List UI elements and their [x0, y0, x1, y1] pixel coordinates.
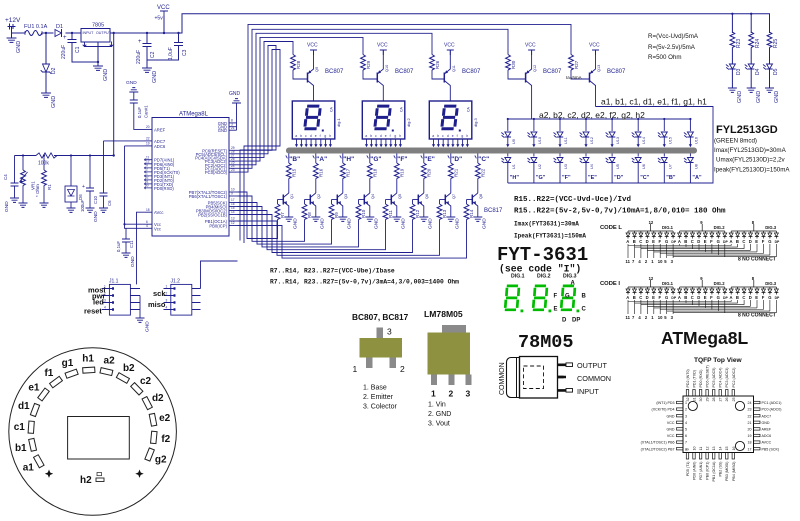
svg-text:CODE I: CODE I — [600, 281, 620, 287]
svg-text:+12V: +12V — [5, 17, 21, 24]
svg-text:GND: GND — [737, 91, 743, 103]
svg-text:VCC: VCC — [667, 434, 675, 438]
svg-text:sck: sck — [153, 289, 166, 298]
svg-text:B: B — [736, 295, 739, 300]
svg-text:ADC7: ADC7 — [762, 414, 772, 418]
pin 9 bottom — [686, 449, 690, 477]
svg-text:Q3: Q3 — [344, 194, 348, 199]
svg-text:f: f — [320, 134, 321, 138]
svg-text:1: 1 — [353, 364, 358, 374]
svg-text:PD2 (INT0): PD2 (INT0) — [686, 369, 690, 387]
svg-text:"C": "C" — [478, 156, 489, 163]
resistor R24 column — [749, 13, 761, 64]
capacitor C6 — [93, 141, 112, 222]
svg-text:F: F — [762, 295, 765, 300]
pin 16 bottom — [732, 447, 736, 481]
svg-text:PB4 (MISO): PB4 (MISO) — [732, 462, 736, 481]
wire segment bus (thick gray) — [286, 148, 697, 154]
svg-text:3: 3 — [466, 389, 471, 399]
svg-text:h: h — [329, 134, 331, 138]
svg-text:VCC: VCC — [307, 43, 318, 49]
svg-text:"E": "E" — [424, 156, 435, 163]
svg-text:DP: DP — [671, 296, 676, 300]
resistor R9 — [329, 200, 339, 233]
svg-text:TQFP Top View: TQFP Top View — [694, 357, 742, 364]
svg-text:Q1: Q1 — [290, 194, 294, 199]
svg-text:R9: R9 — [334, 212, 339, 218]
svg-text:C3: C3 — [182, 49, 188, 56]
pin AREF — [145, 125, 166, 132]
svg-text:PD0(RXD): PD0(RXD) — [154, 186, 174, 191]
note base resistor formulas — [270, 268, 459, 286]
pin PB1(OC1A) — [205, 217, 238, 224]
svg-text:dig.1: dig.1 — [336, 118, 341, 127]
svg-text:22: 22 — [146, 137, 150, 141]
svg-text:R=(Vcc-Uvd)/5mA: R=(Vcc-Uvd)/5mA — [648, 33, 699, 40]
svg-text:BC817: BC817 — [484, 208, 503, 214]
node pad c1 — [14, 421, 35, 433]
resistor R21 — [448, 154, 458, 194]
svg-text:1. Vin: 1. Vin — [428, 402, 446, 409]
7seg display DIG3 — [429, 101, 478, 139]
svg-text:U8: U8 — [694, 164, 698, 169]
resistor R18 — [367, 154, 377, 194]
svg-text:3: 3 — [387, 327, 392, 337]
ground — [365, 217, 379, 229]
resistor R3 100k — [36, 153, 57, 167]
svg-text:G: G — [768, 239, 771, 244]
svg-text:GND: GND — [229, 91, 241, 97]
svg-text:(GREEN 8mcd): (GREEN 8mcd) — [714, 138, 757, 145]
svg-text:U11: U11 — [564, 137, 568, 144]
LED D3 — [726, 64, 742, 88]
regulator 78M05 DPAK drawing — [507, 357, 573, 399]
svg-text:Q8: Q8 — [479, 194, 483, 199]
pin ADC6 — [145, 142, 166, 149]
pin GND — [218, 126, 237, 133]
svg-text:DIG.2: DIG.2 — [537, 274, 551, 280]
svg-text:E: E — [755, 295, 758, 300]
svg-text:C: C — [742, 295, 745, 300]
svg-text:CA: CA — [399, 106, 403, 112]
svg-text:B: B — [582, 294, 587, 300]
LED U1 — [501, 154, 516, 184]
svg-text:R7..R14, R23..R27=(VCC-Ube)/Ib: R7..R14, R23..R27=(VCC-Ube)/Ibase — [270, 268, 395, 275]
svg-text:AVCC: AVCC — [762, 441, 772, 445]
svg-text:GND: GND — [93, 211, 99, 222]
ground — [728, 88, 743, 103]
svg-text:C: C — [582, 307, 587, 313]
pin 12 bottom — [706, 447, 710, 480]
svg-text:100uF: 100uF — [80, 199, 85, 212]
transistor Q3 BC817 — [332, 193, 348, 217]
svg-text:J1.1: J1.1 — [109, 279, 119, 285]
svg-text:R24: R24 — [755, 39, 761, 48]
svg-text:e: e — [385, 134, 387, 138]
SEC-POWER — [5, 5, 770, 156]
svg-text:D: D — [749, 239, 752, 244]
diode array CODE L — [626, 231, 778, 239]
svg-text:PB6(XTAL1/TOSC1): PB6(XTAL1/TOSC1) — [189, 194, 228, 199]
svg-text:PC5 (ADC5): PC5 (ADC5) — [712, 368, 716, 388]
pin 32 top — [686, 369, 690, 401]
svg-text:31: 31 — [692, 398, 696, 402]
svg-text:h1: h1 — [82, 354, 94, 365]
pin 4 left — [667, 421, 687, 425]
LED U7 — [658, 154, 673, 184]
note FYT-3631 title — [497, 244, 588, 275]
svg-text:BC807: BC807 — [395, 69, 414, 75]
LED U3 — [554, 154, 569, 184]
op-amp U100 ATMega8L MCU body — [152, 112, 229, 237]
resistor R26 — [430, 55, 445, 80]
note LM78M05 pinout — [428, 402, 451, 428]
diode D6 box — [65, 154, 83, 212]
svg-text:reset: reset — [84, 307, 102, 316]
pin Vcc — [145, 224, 161, 231]
pin PD0(RXD) — [145, 184, 175, 191]
svg-text:d: d — [380, 134, 382, 138]
resistor R28 — [291, 55, 308, 80]
transistor Q12 BC807 — [526, 50, 562, 119]
pin PD3(INT1) — [145, 172, 175, 179]
SEC-BUNDLE — [237, 24, 572, 258]
pin 10 bottom — [692, 447, 696, 480]
node junction — [45, 32, 47, 34]
pin ADC7 — [145, 137, 166, 144]
svg-text:Q11: Q11 — [452, 65, 456, 72]
svg-text:Imax(FYL2513GD)=30mA: Imax(FYL2513GD)=30mA — [714, 147, 787, 154]
svg-text:A: A — [571, 281, 576, 287]
svg-text:e2: e2 — [159, 413, 171, 424]
node VCC — [155, 5, 171, 34]
svg-text:D2: D2 — [51, 67, 57, 74]
capacitor C3 — [147, 32, 188, 68]
svg-text:Imax(FYT3631)=30mA: Imax(FYT3631)=30mA — [514, 221, 579, 228]
svg-text:GND: GND — [51, 96, 57, 108]
node pad a2 — [100, 355, 115, 375]
note FYL2513GD — [714, 124, 790, 174]
svg-text:INPUT: INPUT — [83, 31, 95, 35]
wire PC2 to Q11 base — [237, 33, 433, 165]
svg-text:8 NO CONNECT: 8 NO CONNECT — [738, 313, 776, 319]
svg-text:4: 4 — [685, 421, 687, 425]
wire code mesh — [628, 300, 776, 314]
svg-text:GND: GND — [218, 128, 227, 133]
svg-text:BC807: BC807 — [543, 69, 562, 75]
svg-text:b: b — [300, 134, 302, 138]
node pad f1 — [44, 368, 62, 388]
svg-text:VCC: VCC — [157, 5, 170, 11]
pin 26 top — [725, 368, 729, 402]
ground — [7, 33, 22, 53]
svg-text:B: B — [633, 239, 636, 244]
node pad h1 — [82, 354, 95, 374]
svg-text:R18: R18 — [372, 168, 377, 177]
svg-text:10: 10 — [658, 259, 663, 264]
svg-text:"B": "B" — [289, 156, 300, 163]
note LED resistor formula — [648, 33, 699, 61]
display DIG1 pins to bus — [295, 139, 332, 147]
SEC-PACKAGES — [352, 309, 472, 428]
svg-text:BC807: BC807 — [607, 69, 626, 75]
SEC-TOPRIGHT — [648, 13, 790, 174]
svg-text:Ipeak(FYT3631)=150mA: Ipeak(FYT3631)=150mA — [514, 233, 586, 240]
pin 23 right — [748, 408, 782, 412]
svg-text:"H": "H" — [510, 175, 520, 181]
wire PC0 to Q13 base — [237, 24, 572, 172]
svg-text:G: G — [768, 295, 771, 300]
svg-text:e: e — [315, 134, 317, 138]
svg-text:19: 19 — [748, 434, 752, 438]
svg-text:E: E — [554, 307, 558, 313]
resistor R14 — [464, 200, 474, 233]
svg-text:a: a — [432, 134, 434, 138]
svg-text:f: f — [457, 134, 458, 138]
resistor R22 — [475, 154, 485, 194]
svg-text:DIG.2: DIG.2 — [714, 281, 726, 286]
node pad g2 — [145, 448, 167, 465]
LED U9 — [501, 118, 516, 147]
svg-text:INPUT: INPUT — [577, 387, 599, 396]
svg-text:FU1 0.1A: FU1 0.1A — [24, 24, 48, 30]
svg-text:Ipeak(FYL25130D)=150mA: Ipeak(FYL25130D)=150mA — [714, 167, 790, 174]
svg-text:+: + — [138, 39, 142, 45]
svg-text:led: led — [93, 298, 104, 307]
svg-text:1. Base: 1. Base — [363, 385, 387, 392]
svg-text:DIG.3: DIG.3 — [765, 225, 777, 230]
svg-text:VCC: VCC — [444, 43, 455, 49]
LED U13 — [606, 118, 621, 147]
svg-text:C: C — [639, 239, 642, 244]
svg-text:E: E — [652, 295, 655, 300]
svg-text:R1: R1 — [47, 184, 52, 190]
svg-text:g: g — [394, 134, 396, 138]
svg-text:D: D — [646, 295, 649, 300]
svg-text:R17: R17 — [345, 168, 350, 177]
wire ADC7 — [104, 140, 145, 142]
wire PB2 staircase to column E — [238, 215, 413, 253]
LED U8 — [684, 154, 699, 184]
svg-text:PB2(SS/OC1B): PB2(SS/OC1B) — [198, 213, 227, 218]
svg-text:9: 9 — [231, 192, 233, 196]
svg-text:R26: R26 — [435, 60, 440, 69]
power VCC — [589, 43, 600, 56]
clock face window — [68, 417, 130, 460]
SEC-IC — [145, 91, 242, 236]
svg-text:14: 14 — [719, 447, 723, 451]
svg-text:GND: GND — [103, 69, 109, 81]
svg-text:B: B — [684, 295, 687, 300]
svg-text:C10: C10 — [93, 196, 98, 204]
svg-text:13: 13 — [231, 217, 235, 221]
svg-text:GND: GND — [427, 218, 433, 229]
svg-text:R11: R11 — [388, 210, 393, 218]
transistor Q7 BC817 — [440, 193, 456, 217]
op-amp U100 TQFP package — [683, 396, 754, 453]
svg-text:R15..R22=(VCC-Uvd-Uce)/Ivd: R15..R22=(VCC-Uvd-Uce)/Ivd — [514, 196, 631, 204]
svg-text:3. Colector: 3. Colector — [363, 404, 398, 411]
svg-text:30: 30 — [145, 184, 149, 188]
node segment F — [394, 156, 408, 164]
svg-text:R15: R15 — [291, 168, 296, 177]
svg-text:D: D — [562, 318, 567, 324]
svg-text:E: E — [652, 239, 655, 244]
svg-text:23: 23 — [748, 408, 752, 412]
svg-text:c2: c2 — [140, 376, 152, 387]
pin PD7(AIN1) — [145, 155, 175, 162]
svg-text:a2, b2, c2, d2, e2, f2, g2, h2: a2, b2, c2, d2, e2, f2, g2, h2 — [539, 110, 645, 120]
svg-text:+5v: +5v — [155, 16, 164, 22]
svg-text:7805: 7805 — [92, 23, 104, 29]
svg-text:Umax(FYL25130D)=2,2v: Umax(FYL25130D)=2,2v — [716, 157, 786, 164]
svg-text:Q5: Q5 — [398, 194, 402, 199]
wire PC4 to Q9 base — [237, 42, 294, 158]
svg-text:d: d — [447, 134, 449, 138]
LED U14 — [632, 118, 647, 147]
wire J1.1 pins — [130, 289, 140, 319]
svg-text:PD6 (AIN0): PD6 (AIN0) — [692, 462, 696, 480]
capacitor Can1 AREF — [126, 80, 149, 129]
svg-text:C: C — [742, 239, 745, 244]
wire PB7 staircase to column B — [238, 192, 278, 239]
ground — [765, 88, 780, 103]
ground — [446, 217, 460, 229]
svg-text:19: 19 — [146, 142, 150, 146]
svg-text:U5: U5 — [616, 164, 620, 169]
pin 21 right — [748, 421, 770, 425]
wire code top bracket — [628, 224, 776, 231]
wire PC1 to Q12 base — [237, 29, 509, 168]
svg-text:R20: R20 — [426, 168, 431, 177]
svg-text:miso: miso — [148, 300, 166, 309]
node pad c2 — [131, 376, 152, 395]
svg-text:AREF: AREF — [154, 127, 166, 132]
svg-text:16: 16 — [732, 447, 736, 451]
svg-text:D: D — [697, 295, 700, 300]
wire PB5 staircase to column H — [238, 203, 332, 245]
pin PC6(RESET) — [202, 146, 236, 153]
LED U16 — [684, 118, 699, 147]
svg-text:(XTAL2/TOSC2) PB7: (XTAL2/TOSC2) PB7 — [641, 447, 675, 451]
diode array CODE I — [626, 287, 778, 295]
svg-text:"A": "A" — [692, 175, 702, 181]
svg-text:+: + — [63, 35, 67, 41]
svg-text:Q9: Q9 — [315, 67, 319, 72]
pin 17 right — [748, 447, 780, 451]
pin 22 right — [748, 414, 772, 418]
pin 11 bottom — [699, 447, 703, 480]
wire IC gnd riser — [236, 103, 238, 130]
wire PB6 staircase to column A — [238, 196, 305, 241]
wire PB3 staircase to column F — [238, 211, 386, 250]
node segment G — [367, 156, 382, 164]
svg-text:c: c — [442, 134, 444, 138]
svg-text:U13: U13 — [616, 137, 620, 144]
svg-text:R16: R16 — [318, 168, 323, 177]
svg-text:VCC: VCC — [525, 43, 536, 49]
ground — [42, 93, 58, 108]
svg-text:VCC: VCC — [377, 43, 388, 49]
svg-text:2: 2 — [449, 389, 454, 399]
svg-text:20: 20 — [146, 125, 150, 129]
svg-text:VCC: VCC — [667, 421, 675, 425]
svg-text:18: 18 — [748, 441, 752, 445]
svg-text:F: F — [659, 239, 662, 244]
svg-text:10: 10 — [692, 447, 696, 451]
node segment E — [421, 156, 435, 164]
svg-text:PB2 (SS): PB2 (SS) — [719, 462, 723, 477]
svg-text:12: 12 — [649, 276, 654, 281]
regulator 7805 — [81, 23, 113, 63]
svg-text:+: + — [82, 184, 85, 190]
svg-text:a: a — [295, 134, 297, 138]
ground — [392, 217, 406, 229]
svg-text:10: 10 — [658, 315, 663, 320]
svg-text:DIG.3: DIG.3 — [563, 274, 577, 280]
svg-text:b2: b2 — [123, 363, 135, 374]
svg-text:2. Emitter: 2. Emitter — [363, 394, 394, 401]
svg-text:PB1 (OC1A): PB1 (OC1A) — [712, 462, 716, 482]
svg-text:4: 4 — [104, 306, 106, 310]
svg-text:PC0(ADC0): PC0(ADC0) — [205, 170, 228, 175]
svg-text:R13: R13 — [442, 209, 447, 218]
pin PB2(SS/OC1B) — [198, 210, 237, 217]
wire sensor rail — [15, 154, 115, 156]
fuse FU1 — [24, 24, 48, 36]
svg-text:3: 3 — [685, 414, 687, 418]
wire rail to sensors — [113, 33, 115, 156]
svg-text:2: 2 — [400, 364, 405, 374]
svg-text:18: 18 — [146, 208, 150, 212]
svg-text:b: b — [437, 134, 439, 138]
svg-text:G: G — [717, 295, 720, 300]
svg-text:Q13: Q13 — [597, 65, 601, 72]
svg-text:24: 24 — [748, 401, 752, 405]
svg-text:J1.2: J1.2 — [171, 279, 181, 285]
svg-text:U4: U4 — [590, 164, 594, 169]
svg-text:U10: U10 — [538, 137, 542, 144]
svg-text:C11: C11 — [129, 240, 134, 248]
svg-text:OUTPUT: OUTPUT — [577, 361, 608, 370]
SEC-BAR — [286, 148, 697, 154]
SEC-TEXTS — [270, 196, 726, 286]
svg-text:A: A — [730, 239, 733, 244]
svg-text:2: 2 — [685, 408, 687, 412]
pin 31 top — [692, 370, 696, 402]
pin 27 top — [719, 368, 723, 402]
pin 3 left — [667, 414, 688, 418]
svg-text:VCC: VCC — [589, 43, 600, 49]
pin PD2(INT0) — [145, 176, 175, 183]
connector J1.2 — [164, 279, 192, 316]
svg-text:GND: GND — [152, 71, 158, 83]
potentiometer VR1 — [19, 154, 36, 207]
node pad e2 — [149, 413, 170, 426]
svg-text:GND: GND — [346, 218, 352, 229]
svg-text:ATMega8L: ATMega8L — [661, 328, 748, 348]
svg-text:GND: GND — [481, 218, 487, 229]
wire PC6 down left — [237, 50, 281, 244]
svg-text:B: B — [684, 239, 687, 244]
svg-text:DP: DP — [671, 240, 676, 244]
svg-text:25: 25 — [732, 398, 736, 402]
svg-text:B: B — [736, 239, 739, 244]
svg-text:ADC6: ADC6 — [154, 144, 166, 149]
ground — [229, 91, 241, 103]
7seg green digit 3 — [561, 286, 579, 312]
node pad b1 — [15, 438, 37, 453]
